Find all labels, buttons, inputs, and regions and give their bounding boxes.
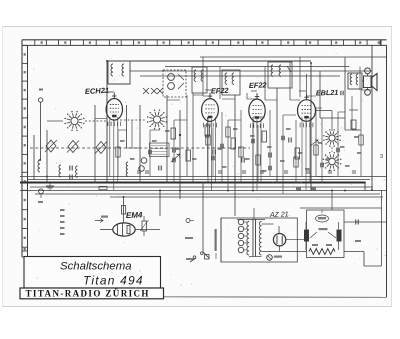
svg-text:Schaltschema: Schaltschema — [60, 261, 132, 273]
svg-text:ECH21: ECH21 — [85, 86, 110, 96]
svg-text:EBL21: EBL21 — [316, 88, 339, 98]
svg-text:EM4: EM4 — [126, 210, 143, 220]
svg-text:Titan 494: Titan 494 — [83, 274, 144, 288]
svg-text:3: 3 — [380, 154, 383, 160]
svg-text:EF22: EF22 — [249, 80, 268, 90]
svg-text:TITAN-RADIO ZÜRICH: TITAN-RADIO ZÜRICH — [26, 288, 150, 298]
svg-text:EF22: EF22 — [211, 86, 230, 96]
